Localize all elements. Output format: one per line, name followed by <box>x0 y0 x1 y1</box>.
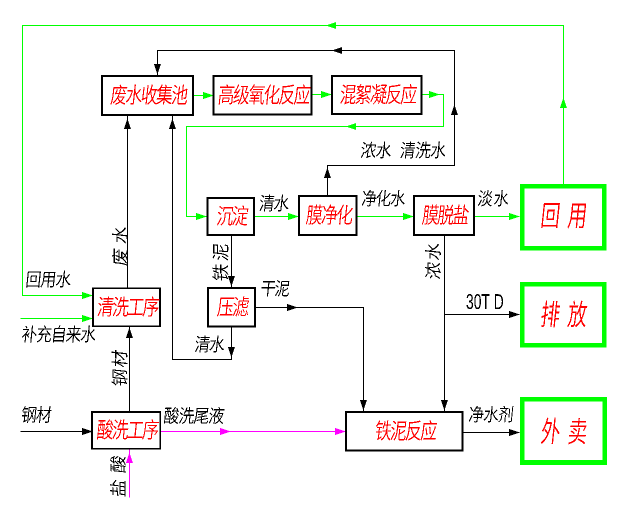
label 钢材 vertical (vertical) <box>111 350 127 387</box>
wire 钢材 from 酸洗工序 up to 清洗工序 <box>129 326 131 413</box>
arrowhead magenta mid arrow <box>220 428 231 435</box>
arrowhead up into return line above 膜净化 <box>324 168 331 179</box>
box 膜净化 <box>299 196 357 235</box>
arrowhead up into 清洗工序 bottom <box>126 328 133 339</box>
arrowhead green into 沉淀 <box>196 213 207 220</box>
wire 净水剂 from 铁泥反应 to 外卖 <box>463 432 520 434</box>
arrowhead green into 回用 <box>509 213 520 220</box>
arrowhead green left on top line <box>326 22 337 29</box>
label 回用水 <box>26 271 72 288</box>
label 淡水 <box>477 190 509 207</box>
wire branch to 排放 <box>445 314 520 316</box>
wire green 高级氧化反应 to 混絮凝反应 <box>312 94 332 96</box>
box 膜脱盐 <box>414 196 474 235</box>
arrowhead magenta into 铁泥反应 <box>335 428 346 435</box>
label 清水 below 压滤 <box>194 335 225 352</box>
arrowhead green up from 回用 <box>560 98 567 109</box>
arrowhead right into 酸洗工序 <box>82 428 93 435</box>
wire green 废水收集池 to 高级氧化反应 <box>194 95 214 97</box>
wire green 沉淀 to 膜净化 清水 <box>255 216 299 218</box>
box 回用 (green) <box>522 186 604 248</box>
box 外卖 (green) <box>522 399 604 462</box>
arrowhead green 补充自来水 into 清洗工序 <box>82 315 93 322</box>
arrowhead left on y=50 return line <box>332 47 343 54</box>
box 沉淀 <box>208 198 255 235</box>
arrowhead right into 外卖 <box>509 429 520 436</box>
wire 清水 return from 压滤 to 废水收集池 <box>173 116 232 360</box>
arrowhead down into 铁泥反应 top left <box>360 400 367 411</box>
wire green recycle 回用 to 清洗工序 <box>23 26 564 296</box>
arrowhead right into 排放 <box>509 311 520 318</box>
label 补充自来水 <box>21 325 96 342</box>
label 清水 after 沉淀 <box>259 194 290 211</box>
arrowhead green into 膜脱盐 <box>403 213 414 220</box>
label 净化水 <box>362 190 406 207</box>
arrowhead green into 膜净化 <box>288 213 299 220</box>
arrowhead green left on y=126 <box>346 123 357 130</box>
wire green 膜脱盐 to 回用 淡水 <box>475 216 520 218</box>
arrowhead down into 压滤 top <box>228 276 235 287</box>
label 干泥 <box>261 280 290 296</box>
wire green 膜净化 to 膜脱盐 净化水 <box>357 216 414 218</box>
label 盐酸 (vertical) <box>110 455 126 497</box>
wire 钢材 input to 酸洗工序 <box>21 431 92 433</box>
box 排放 (green) <box>522 284 604 345</box>
box 酸洗工序 <box>92 412 160 449</box>
label 浓水 清洗水 <box>360 141 446 158</box>
label 钢材 input <box>21 406 52 423</box>
wire magenta 酸洗尾液 to 铁泥反应 <box>161 431 346 433</box>
wire concentrate return from 膜净化 to 废水收集池 <box>158 51 455 197</box>
wire magenta 盐酸 input <box>129 450 131 498</box>
arrowhead down into 废水收集池 top <box>154 64 161 75</box>
label 30T D <box>467 294 504 309</box>
arrowhead right after 压滤 <box>287 304 298 311</box>
label 酸洗尾液 <box>164 407 225 424</box>
arrowhead green into 高级氧化反应 <box>203 92 214 99</box>
arrowhead magenta up 盐酸 <box>126 453 133 464</box>
label 废水 (vertical) <box>112 226 128 266</box>
arrowhead down on 压滤 outlet <box>228 347 235 358</box>
box 废水收集池 <box>102 76 193 115</box>
box 压滤 <box>208 288 255 327</box>
wire green 补充自来水 line <box>21 318 93 320</box>
arrowhead up into 废水收集池 bottom left <box>124 119 131 130</box>
wire 铁泥 from 沉淀 down to 压滤 <box>231 236 233 289</box>
wire 废水 from 清洗工序 up to 废水收集池 <box>127 116 129 289</box>
arrowhead up into 废水收集池 bottom right <box>169 119 176 130</box>
wire green 混絮凝反应 to 沉淀 <box>187 95 444 217</box>
box 混絮凝反应 <box>332 76 422 114</box>
box 高级氧化反应 <box>214 76 312 115</box>
arrowhead green right before corner <box>429 91 440 98</box>
arrowhead green 回用水 into 清洗工序 <box>82 292 93 299</box>
label 净水剂 <box>469 406 514 423</box>
wire 干泥 from 压滤 to 铁泥反应 <box>256 308 364 413</box>
box 铁泥反应 <box>346 412 463 451</box>
arrowhead up on x=455 riser <box>451 105 458 116</box>
arrowhead down into 铁泥反应 top right <box>441 400 448 411</box>
arrowhead green into 混絮凝反应 <box>321 91 332 98</box>
wire 浓水 from 膜脱盐 down to 铁泥反应 <box>444 236 446 413</box>
box 清洗工序 <box>93 288 160 326</box>
label 铁泥 (vertical) <box>212 243 228 281</box>
label 浓水 vertical (vertical) <box>425 242 441 279</box>
